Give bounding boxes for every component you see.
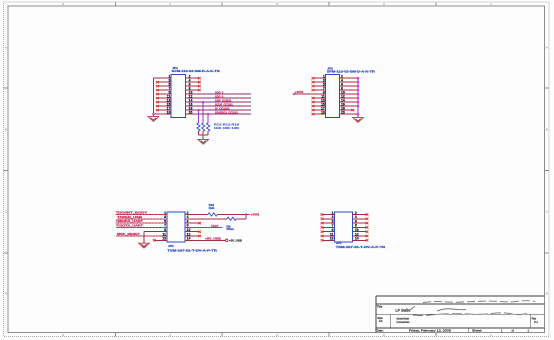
- junction CSN_CC1101 / R13 tap: [202, 101, 205, 104]
- no-connect X JP2 pin 13: [312, 101, 315, 103]
- wire JP1 left GND bus vertical: [152, 78, 154, 116]
- wire R9 to +3V3 node: [236, 218, 246, 220]
- wire JP2 pin 5 no-connect stub: [314, 85, 326, 87]
- svg-text:Connectors: Connectors: [397, 320, 411, 324]
- wire below R13: [202, 131, 204, 135]
- svg-text:Friday, February 13, 2009: Friday, February 13, 2009: [409, 329, 451, 333]
- junction JP2 pin 6 on GND bus: [357, 85, 360, 88]
- svg-text:B: B: [5, 128, 7, 132]
- svg-text:+5V_USB: +5V_USB: [229, 239, 242, 243]
- junction SO/GDO1_CC1101 / R15 tap: [207, 113, 210, 116]
- JP4 right pin numbers 2-14: [355, 211, 359, 241]
- resistor R10: [208, 213, 217, 216]
- wire JP1 pin 13 no-connect stub: [156, 101, 171, 103]
- svg-text:A: A: [546, 46, 548, 50]
- wire JP4 pin 11 no-connect stub: [323, 235, 334, 237]
- svg-text:N.M.: N.M.: [209, 206, 215, 210]
- no-connect X JP2 pin 17: [312, 109, 315, 111]
- wire JP2 pin 7 no-connect stub: [314, 89, 326, 91]
- svg-text:SFM-110-02-SM-D-A-K-TR: SFM-110-02-SM-D-A-K-TR: [327, 69, 376, 73]
- no-connect X JP4 pin 14: [366, 239, 369, 241]
- no-connect X JP2 pin 7: [312, 89, 315, 91]
- resistor R9: [227, 217, 236, 220]
- no-connect X JP1 pin 3: [156, 81, 159, 83]
- svg-text:TSM-107-01-T-DV-A-P-TR: TSM-107-01-T-DV-A-P-TR: [336, 245, 387, 249]
- wire JP4 pin 2 no-connect stub: [353, 214, 366, 216]
- no-connect X JP2 pin 5: [312, 85, 315, 87]
- wire JP2 pin 17 no-connect stub: [314, 109, 326, 111]
- no-connect X JP1 pin 5: [156, 85, 159, 87]
- ground symbol below R12 R13 R15: [198, 139, 209, 144]
- svg-text:TSM-107-01-T-DV-A-P-TR: TSM-107-01-T-DV-A-P-TR: [167, 248, 218, 252]
- no-connect X JP1 pin 13: [156, 101, 159, 103]
- no-connect X JP4 pin 1: [321, 213, 324, 215]
- wire net GDO_2 from JP1 pin 12: [185, 97, 251, 99]
- svg-text:SFM-110-02-SM-D-A-K-TR: SFM-110-02-SM-D-A-K-TR: [172, 69, 221, 73]
- JP1 right pin numbers 2-20: [189, 75, 193, 115]
- ground symbol below JP3 pin 9: [139, 243, 150, 248]
- JP3 right pin numbers 2-14: [187, 211, 191, 241]
- no-connect X JP4 pin 5: [321, 222, 324, 224]
- wire JP1 pin 9 no-connect stub: [156, 93, 171, 95]
- no-connect X JP4 pin 13: [321, 239, 324, 241]
- wire JP4 pin 5 no-connect stub: [323, 222, 334, 224]
- wire net TCK/TX_UART to JP3 pin 7: [116, 226, 167, 228]
- wire JP4 pin 6 no-connect stub: [353, 222, 366, 224]
- wire JP2 pin 10 to GND bus: [339, 93, 358, 95]
- no-connect X JP3 pin 12: [198, 235, 201, 237]
- wire below R12: [198, 131, 200, 135]
- no-connect X JP4 pin 3: [321, 218, 324, 220]
- wire net GDO_0 from JP1 pin 10: [185, 93, 251, 95]
- wire JP1 pin 4 no-connect stub: [185, 81, 198, 83]
- wire JP3 ground drop vertical: [143, 232, 145, 244]
- wire JP2 pin 6 to GND bus: [339, 85, 358, 87]
- junction SI_CC1101 / R12 tap: [197, 109, 200, 112]
- wire JP2 pin 2 to GND bus: [339, 77, 358, 79]
- wire to ground from resistor bar: [202, 135, 204, 139]
- wire JP3 pin 12 no-connect stub: [185, 235, 198, 237]
- wire JP2 pin 11 no-connect stub: [314, 97, 326, 99]
- svg-text:TCK/TX_UART: TCK/TX_UART: [116, 224, 143, 228]
- wire JP1 pin 19 to GND bus: [153, 113, 171, 115]
- junction JP2 pin 12 on GND bus: [357, 97, 360, 100]
- connector JP4 body TSM-107-01-T-DV-A-P-TR: [335, 212, 353, 242]
- no-connect X JP2 pin 1: [312, 77, 315, 79]
- no-connect X JP4 pin 7: [321, 226, 324, 228]
- resistor R12: [197, 123, 200, 131]
- wire JP2 pin 18 no-connect stub: [339, 109, 352, 111]
- svg-text:of: of: [512, 329, 515, 333]
- svg-text:+3V3: +3V3: [294, 90, 303, 94]
- no-connect X JP1 pin 8: [198, 89, 201, 91]
- ground symbol at JP2 right: [353, 118, 364, 123]
- no-connect X JP4 pin 12: [366, 235, 369, 237]
- no-connect X JP4 pin 6: [366, 222, 369, 224]
- wire JP2 right GND bus vertical: [357, 78, 359, 117]
- wire JP4 pin 14 no-connect stub: [353, 239, 366, 241]
- junction JP1 pin19/GND bus: [152, 113, 154, 115]
- wire net +5V_USB from JP3 pin 14: [185, 239, 225, 241]
- wire JP1 pin 6 no-connect stub: [185, 85, 198, 87]
- wire JP4 pin 8 no-connect stub: [353, 226, 366, 228]
- wire JP2 pin 3 no-connect stub: [314, 81, 326, 83]
- junction JP2 pin 4 on GND bus: [357, 81, 360, 84]
- svg-text:A4: A4: [379, 319, 383, 323]
- wire JP2 pin 19 no-connect stub: [314, 113, 326, 115]
- wire JP1 pin 5 no-connect stub: [156, 85, 171, 87]
- no-connect X JP1 pin 15: [156, 105, 159, 107]
- no-connect X JP1 pin 11: [156, 97, 159, 99]
- svg-text:19: 19: [321, 110, 325, 114]
- svg-text:P.1: P.1: [534, 320, 538, 324]
- connector JP1 body SFM-110-02-SM-D-A-K-TR: [171, 74, 185, 117]
- wire net SI_CC1101 from JP1 pin 18: [185, 109, 251, 111]
- wire R10 to +3V3 node: [217, 214, 249, 216]
- no-connect X JP2 pin 19: [312, 113, 315, 115]
- junction +3V3 node at R9/R10: [245, 213, 247, 215]
- wire net SCLK_CC1101 from JP1 pin 16: [185, 105, 251, 107]
- svg-text:SO/GDO1_CC1101: SO/GDO1_CC1101: [215, 110, 238, 114]
- wire JP1 pin 17 no-connect stub: [156, 109, 171, 111]
- wire JP3 pin 6 no-connect stub: [185, 222, 198, 224]
- wire JP4 pin 3 no-connect stub: [323, 218, 334, 220]
- junction JP2 pin 14 on GND bus: [357, 101, 360, 104]
- no-connect X JP4 pin 10: [366, 231, 369, 233]
- no-connect X JP2 pin 11: [312, 97, 315, 99]
- resistor R15: [207, 123, 210, 131]
- power node +3V3 junction: [293, 93, 295, 95]
- wire JP4 pin 10 no-connect stub: [353, 231, 366, 233]
- svg-text:0Ohm: 0Ohm: [226, 227, 234, 231]
- svg-text:MSP_RESET: MSP_RESET: [117, 232, 140, 236]
- svg-text:+5V_USB: +5V_USB: [205, 237, 221, 241]
- svg-text:19: 19: [167, 110, 171, 114]
- wire JP2 pin 13 no-connect stub: [314, 101, 326, 103]
- no-connect X JP4 pin 8: [366, 226, 369, 228]
- wire JP4 pin 7 no-connect stub: [323, 226, 334, 228]
- svg-text:A: A: [5, 46, 7, 50]
- junction JP2 pin 16 on GND bus: [357, 105, 360, 108]
- wire R15 tap vertical: [207, 114, 209, 123]
- no-connect X JP3 pin 13: [153, 239, 156, 241]
- svg-text:+3V3: +3V3: [250, 213, 259, 217]
- junction JP2 pin 8 on GND bus: [357, 89, 360, 92]
- svg-text:B: B: [546, 128, 548, 132]
- wire R9 branch up to +3V3 node: [245, 215, 247, 219]
- no-connect X JP1 pin 7: [156, 89, 159, 91]
- junction JP2 pin 10 on GND bus: [357, 93, 360, 96]
- wire JP4 pin 1 no-connect stub: [323, 214, 334, 216]
- JP1 left pin numbers 1-19: [167, 75, 171, 115]
- wire net TDI/EN_USB to JP3 pin 3: [117, 218, 167, 220]
- wire JP1 pin 7 no-connect stub: [156, 89, 171, 91]
- wire JP1 pin 3 no-connect stub: [156, 81, 171, 83]
- svg-text:14: 14: [355, 237, 359, 241]
- wire JP3 pin 2 to R10: [185, 214, 208, 216]
- no-connect X JP3 pin 10: [198, 231, 201, 233]
- wire net TEST from JP3 pin 8: [185, 226, 222, 228]
- wire JP3 pin 13 no-connect stub: [155, 239, 167, 241]
- wire R13 tap vertical: [202, 102, 204, 123]
- resistor R13: [202, 123, 205, 131]
- wire net MSP_RESET to JP3 pin 11: [116, 235, 167, 237]
- svg-text:Title: Title: [377, 305, 383, 309]
- wire JP3 pin 10 no-connect stub: [185, 231, 198, 233]
- svg-text:13: 13: [162, 237, 166, 241]
- connector JP3 body TSM-107-01-T-DV-A-P-TR: [167, 212, 185, 242]
- wire JP1 pin 1 to GND bus: [153, 77, 171, 79]
- no-connect X JP1 pin 4: [198, 81, 201, 83]
- no-connect X JP1 pin 17: [156, 109, 159, 111]
- no-connect X JP2 pin 15: [312, 105, 315, 107]
- wire JP2 pin 4 to GND bus: [339, 81, 358, 83]
- JP2 right pin numbers 2-20: [341, 75, 345, 115]
- svg-text:13: 13: [330, 237, 334, 241]
- wire JP2 pin 12 to GND bus: [339, 97, 358, 99]
- wire JP3 pin 9 to ground: [144, 231, 167, 233]
- ground symbol at JP1 left: [148, 117, 159, 122]
- svg-text:Date:: Date:: [377, 329, 384, 333]
- JP3 left pin numbers 1-13: [162, 211, 166, 241]
- wire JP2 pin 20 to GND bus: [339, 113, 358, 115]
- wire below R15: [207, 131, 209, 135]
- wire JP4 pin 9 no-connect stub: [323, 231, 334, 233]
- off-page port circle +5V_USB: [225, 239, 228, 242]
- wire JP2 pin 8 to GND bus: [339, 89, 358, 91]
- no-connect X JP1 pin 6: [198, 85, 201, 87]
- wire R12 tap vertical: [198, 110, 200, 123]
- no-connect X JP2 pin 18: [352, 109, 355, 111]
- svg-text:TEST: TEST: [211, 224, 219, 228]
- wire JP3 pin 4 to R9: [185, 218, 227, 220]
- wire net +3V3 to JP2 pin 9: [294, 93, 326, 95]
- JP2 left pin numbers 1-19: [321, 75, 325, 115]
- no-connect X JP4 pin 11: [321, 235, 324, 237]
- wire JP1 pin 11 no-connect stub: [156, 97, 171, 99]
- no-connect X JP4 pin 4: [366, 218, 369, 220]
- wire JP1 pin 8 no-connect stub: [185, 89, 198, 91]
- no-connect X JP4 pin 2: [366, 213, 369, 215]
- junction JP2 pin 20 on GND bus: [357, 113, 360, 116]
- wire JP2 pin 14 to GND bus: [339, 101, 358, 103]
- wire JP2 pin 1 no-connect stub: [314, 77, 326, 79]
- wire JP1 pin 2 no-connect stub: [185, 77, 198, 79]
- JP4 left pin numbers 1-13: [330, 211, 334, 241]
- no-connect X JP3 pin 6: [198, 222, 201, 224]
- junction JP3 ground drop / pin 11 wire crossing: [143, 235, 145, 237]
- no-connect X JP1 pin 2: [198, 77, 201, 79]
- wire JP2 pin 15 no-connect stub: [314, 105, 326, 107]
- wire JP4 pin 4 no-connect stub: [353, 218, 366, 220]
- no-connect X JP4 pin 9: [321, 231, 324, 233]
- wire resistor common bar: [199, 134, 209, 136]
- svg-text:Document Number: Document Number: [397, 316, 410, 320]
- svg-text:Sheet: Sheet: [472, 329, 482, 333]
- svg-text:10K 10K 10K: 10K 10K 10K: [214, 126, 241, 130]
- wire net TMS/RX_UART to JP3 pin 5: [116, 222, 167, 224]
- wire JP2 pin 16 to GND bus: [339, 105, 358, 107]
- wire JP4 pin 13 no-connect stub: [323, 239, 334, 241]
- wire JP4 pin 12 no-connect stub: [353, 235, 366, 237]
- connector JP2 body SFM-110-02-SM-D-A-K-TR: [326, 74, 340, 117]
- wire net SO/GDO1_CC1101 from JP1 pin 20: [185, 113, 251, 115]
- wire net TDO/INT_BODY to JP3 pin 1: [116, 214, 167, 216]
- junction JP2 pin 2 on GND bus: [357, 77, 360, 80]
- no-connect X JP1 pin 9: [156, 93, 159, 95]
- no-connect X JP2 pin 3: [312, 81, 315, 83]
- wire net CSN_CC1101 from JP1 pin 14: [185, 101, 251, 103]
- wire JP1 pin 15 no-connect stub: [156, 105, 171, 107]
